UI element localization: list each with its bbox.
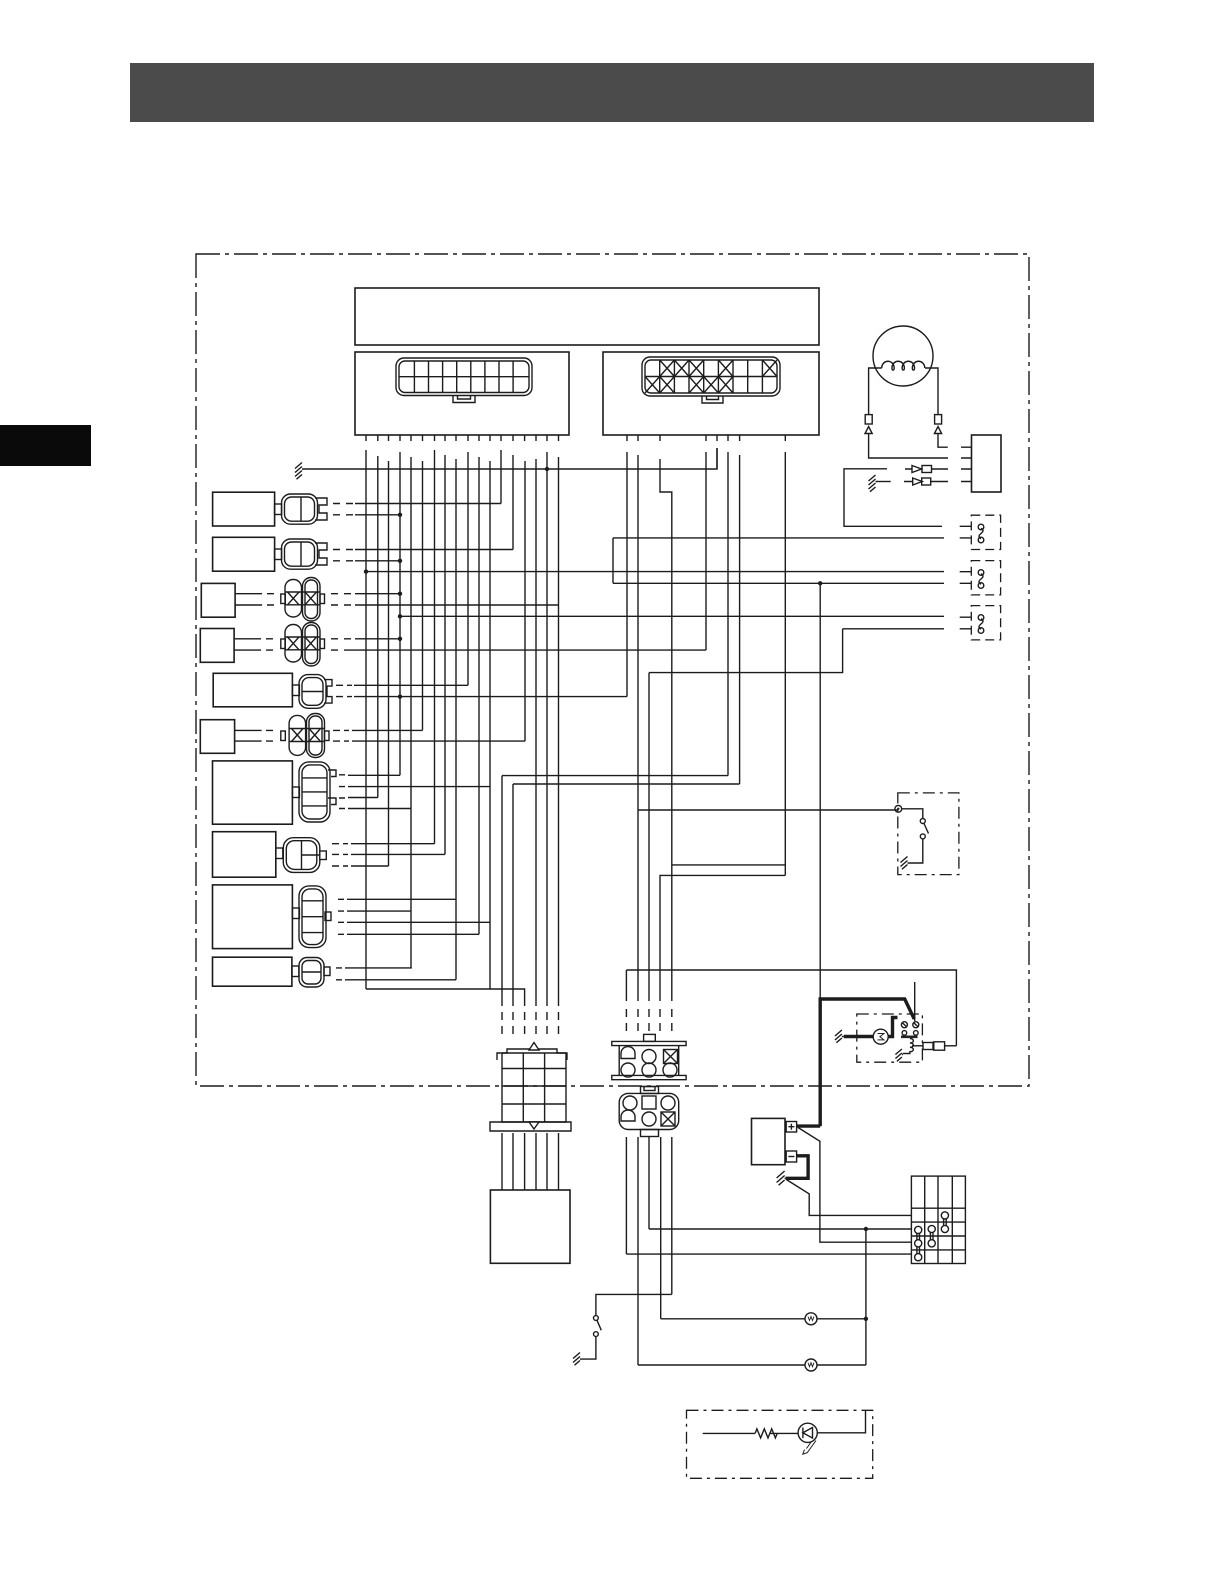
wire J1 pin12 vertical	[489, 461, 491, 989]
wire kill switch feed from v638	[638, 809, 898, 811]
injector INJ3 dashed box	[971, 606, 1000, 640]
S3 stub wires	[235, 594, 274, 605]
ground G4 (starter)	[835, 1030, 844, 1043]
S7 pin2 wire	[348, 786, 490, 788]
wire from J2 pin7 to joint lane x513	[513, 783, 740, 785]
S10 connector plug	[292, 958, 330, 988]
CDI pin stubs	[961, 447, 972, 481]
battery minus thin branch	[786, 1179, 911, 1215]
INJ2 pin stubs	[960, 572, 972, 584]
ground G5 (starter relay coil)	[895, 1049, 903, 1061]
S9 connector plug	[292, 886, 331, 948]
wire joint lane x513 lower segment	[512, 784, 514, 1006]
sensor S6 box	[200, 720, 234, 754]
sensor S5 box	[213, 673, 292, 707]
wire joint lane x502 lower segment	[501, 776, 503, 1006]
joint connector B lower half	[619, 1087, 679, 1137]
sensor S10 box	[213, 957, 292, 986]
joint connector A lower half	[490, 1086, 571, 1131]
meter internal wire	[703, 1432, 755, 1434]
wire J1 pin14 vertical	[512, 455, 514, 550]
stand switch wire	[596, 1294, 672, 1315]
ECU connector box 1	[355, 352, 569, 435]
meter dashed box	[687, 1410, 873, 1478]
battery minus thick lead	[786, 1156, 809, 1179]
injector INJ2 dashed box	[971, 561, 1000, 595]
battery plus thin branch	[798, 1128, 911, 1243]
LED D1	[798, 1423, 817, 1454]
starter relay contact lead	[914, 982, 916, 1021]
sensor S2 box	[213, 537, 275, 571]
wire to fuse row2	[649, 1228, 911, 1230]
sensor S9 box	[213, 885, 293, 949]
indicator bulb 1	[805, 1313, 817, 1325]
resistor R1	[755, 1429, 777, 1438]
S9 pin3 wire	[347, 921, 490, 923]
INJ1 pin stubs	[960, 526, 972, 538]
S1 pin1 wire	[355, 503, 501, 505]
S3 pin2 wire	[355, 604, 559, 606]
wire J2 pin2 vertical (to lamp 2)	[637, 455, 639, 1001]
wire INJ2 pin1 long	[366, 571, 944, 573]
thick feed battery to starter	[820, 999, 914, 1126]
S8 connector	[276, 838, 327, 873]
CDI unit box	[972, 435, 1002, 492]
kill relay switch	[902, 809, 923, 819]
wire branch v366 to joint lane	[366, 989, 525, 1006]
battery plus terminal	[786, 1122, 796, 1133]
battery box	[752, 1118, 786, 1164]
connector J2 (2x9 grid with X cells)	[642, 357, 780, 403]
S7 pin4 wire	[348, 808, 411, 810]
starter motor dashed box	[857, 1014, 923, 1062]
wire J1 pin17 vertical (ground lane)	[546, 452, 548, 1006]
S8 pin2 wire	[351, 853, 445, 855]
joint A lower wires	[502, 1133, 559, 1190]
S3 pin1 wire	[355, 593, 400, 595]
joint connector B wires dashes above	[626, 1009, 671, 1031]
wire injector3 pin2 riser junction	[648, 673, 650, 1001]
S6 capsule connector	[281, 714, 329, 758]
S7 pin1 wire	[348, 774, 400, 776]
wire J2 pin4 vertical	[705, 452, 707, 650]
S5 wire dashes	[336, 685, 352, 696]
bullet connector row y469	[905, 466, 922, 473]
S7 pin3 wire	[348, 797, 378, 799]
starter thick leads	[844, 1018, 898, 1037]
wire from J2 pin6 to joint lane x502	[502, 775, 728, 777]
wire v613 link	[612, 538, 614, 583]
indicator bulb 1 wire	[661, 1318, 866, 1320]
joint connector A wires dashes above	[502, 1012, 559, 1034]
S7 wire dashes	[339, 775, 345, 809]
starter relay coil	[903, 1039, 913, 1054]
ground G6 (stand switch)	[573, 1353, 581, 1366]
S1 connector plug	[275, 494, 327, 524]
S8 wire dashes	[332, 844, 348, 866]
spark plug cap right	[935, 415, 942, 424]
wire J2 pin1 vertical	[626, 452, 628, 697]
sensor S7 box	[213, 761, 293, 824]
sensor S3 box	[201, 583, 235, 617]
starter relay contacts	[901, 1022, 907, 1028]
S10 wire dashes	[336, 968, 342, 980]
S10 pin1 wire	[345, 967, 412, 969]
starter solenoid bullet connector	[912, 1045, 923, 1047]
wire J2 pin5 vertical (ground pin)	[716, 448, 718, 469]
wire INJ1 pin2	[613, 537, 944, 539]
S9 pin1 wire	[347, 898, 456, 900]
wire J2 pin3 vertical with jog	[660, 459, 672, 1001]
wire J1 pin16 vertical	[535, 459, 537, 1006]
wire J1 pin5 vertical	[410, 457, 412, 968]
bullet connector row y481.5	[878, 481, 891, 483]
INJ1 coil symbol	[978, 524, 984, 543]
S5 pin2 wire	[354, 696, 627, 698]
wire J1 pin9 vertical	[455, 459, 457, 980]
junction ground bus / v547	[545, 467, 549, 471]
joint B lower wires	[626, 1137, 671, 1365]
S1 wire dashes	[333, 504, 353, 515]
S3 wire dashes	[331, 594, 351, 605]
S8 pin3 wire	[351, 865, 389, 867]
S2 pin2 wire	[355, 560, 400, 562]
joint connector A upper half	[497, 1043, 567, 1087]
fuse F1	[941, 1212, 948, 1233]
ground G2 (CDI ground)	[869, 475, 878, 492]
wire J1 pin15 vertical	[524, 461, 526, 741]
INJ3 pin stubs	[960, 617, 972, 629]
ECU label box	[355, 288, 819, 345]
wire INJ3 pin1 long	[400, 615, 944, 617]
wire J1 pin1 vertical	[365, 450, 367, 989]
S2 wire dashes	[333, 550, 353, 561]
S9 wire dashes	[338, 899, 344, 934]
fuse box	[911, 1176, 965, 1263]
header bar	[130, 63, 1094, 122]
battery plus thick lead	[797, 1124, 821, 1127]
S4 wire dashes	[331, 639, 351, 650]
ground G3 (kill relay)	[901, 857, 910, 870]
wire J2 pin7 vertical	[739, 455, 741, 784]
INJ3 coil symbol	[978, 615, 984, 634]
wire J1 pin13 vertical	[500, 450, 502, 504]
kill relay dashed box	[898, 793, 959, 875]
ground G1 (main harness ground)	[295, 463, 304, 480]
S6 wire dashes	[333, 730, 349, 741]
J1 pin ticks	[366, 435, 559, 441]
S6 pin2 wire	[352, 740, 525, 742]
ignition coil winding	[882, 361, 925, 370]
wire J1 pin10 vertical	[467, 452, 469, 685]
J2 pin ticks	[627, 435, 785, 441]
fuse F3	[928, 1225, 935, 1247]
wire J1 pin11 vertical	[478, 457, 480, 934]
S5 pin1 wire	[354, 684, 468, 686]
S4 stub wires	[234, 639, 273, 650]
spare coupler box	[490, 1190, 570, 1263]
wire INJ3 pin2	[649, 629, 944, 673]
indicator bulb 2	[805, 1359, 817, 1371]
S1 pin2 wire	[355, 514, 400, 516]
bulb feed riser	[865, 1229, 867, 1365]
S10 pin2 wire	[345, 979, 456, 981]
spark plug cap left	[865, 415, 872, 424]
wire J1 pin7 vertical	[434, 450, 436, 844]
S4 capsule connector	[281, 623, 325, 667]
wire starter coil feed	[626, 970, 956, 1046]
S9 pin4 wire	[347, 933, 479, 935]
S9 pin2 wire	[347, 910, 411, 912]
ground bus wire	[304, 448, 717, 469]
ECU connector box 2	[603, 352, 819, 435]
S5 connector plug	[292, 675, 332, 709]
battery minus terminal	[786, 1151, 796, 1162]
spark gap arrow right	[934, 427, 947, 448]
sensor S1 box	[213, 492, 275, 526]
joint connector B upper half	[612, 1034, 686, 1079]
starter motor M	[873, 1029, 888, 1044]
starter relay contact bar	[901, 1036, 918, 1039]
wire J2 pin8 vertical	[784, 452, 786, 875]
wire to fuse row4	[626, 1253, 911, 1255]
sensor S4 box	[200, 629, 234, 663]
spark gap arrow left	[865, 427, 948, 459]
coil lead right	[925, 368, 938, 415]
ignition coil T1 circle	[873, 326, 933, 386]
page edge tab	[0, 425, 91, 466]
wire INJ2 pin2	[613, 582, 944, 584]
S4 pin2 wire	[351, 649, 706, 651]
kill relay terminal	[895, 805, 902, 812]
stand switch	[594, 1316, 599, 1321]
INJ2 coil symbol	[978, 570, 984, 589]
injector INJ1 dashed box	[971, 515, 1000, 549]
S4 pin1 wire	[355, 638, 400, 640]
sensor S8 box	[213, 832, 276, 878]
wire J1 pin6 vertical	[422, 461, 424, 730]
S2 connector plug	[275, 539, 327, 569]
fuse F2	[915, 1226, 922, 1260]
wire J2 pin8 to lane x660	[660, 875, 785, 1001]
indicator bulb 2 wire	[638, 1364, 866, 1366]
connector J1 (2x9 grid)	[396, 358, 532, 403]
battery positive riser	[819, 583, 821, 1126]
S8 pin1 wire	[351, 843, 435, 845]
S3 capsule connector	[281, 578, 325, 622]
wire J1 pin3 vertical	[388, 461, 390, 866]
wire J2 pin6 vertical	[727, 452, 729, 776]
joint lane x626 upper	[625, 970, 627, 1001]
S6 pin1 wire	[352, 729, 423, 731]
ground G7 (battery)	[777, 1171, 786, 1185]
S6 stub wires	[235, 730, 273, 741]
wire J1 pin8 vertical	[444, 455, 446, 854]
wire injector1 pin1 loop	[844, 469, 942, 527]
diagram dash-dot border	[196, 254, 1029, 1086]
wire J1 pin4 vertical (sensor ground bus)	[399, 452, 401, 775]
wire J1 pin2 vertical	[377, 456, 379, 798]
coil lead left	[869, 368, 882, 415]
wire J1 pin18 vertical	[558, 457, 560, 1006]
wire kill relay branch	[672, 864, 786, 866]
S7 connector plug	[292, 762, 336, 822]
S2 pin1 wire	[355, 549, 513, 551]
